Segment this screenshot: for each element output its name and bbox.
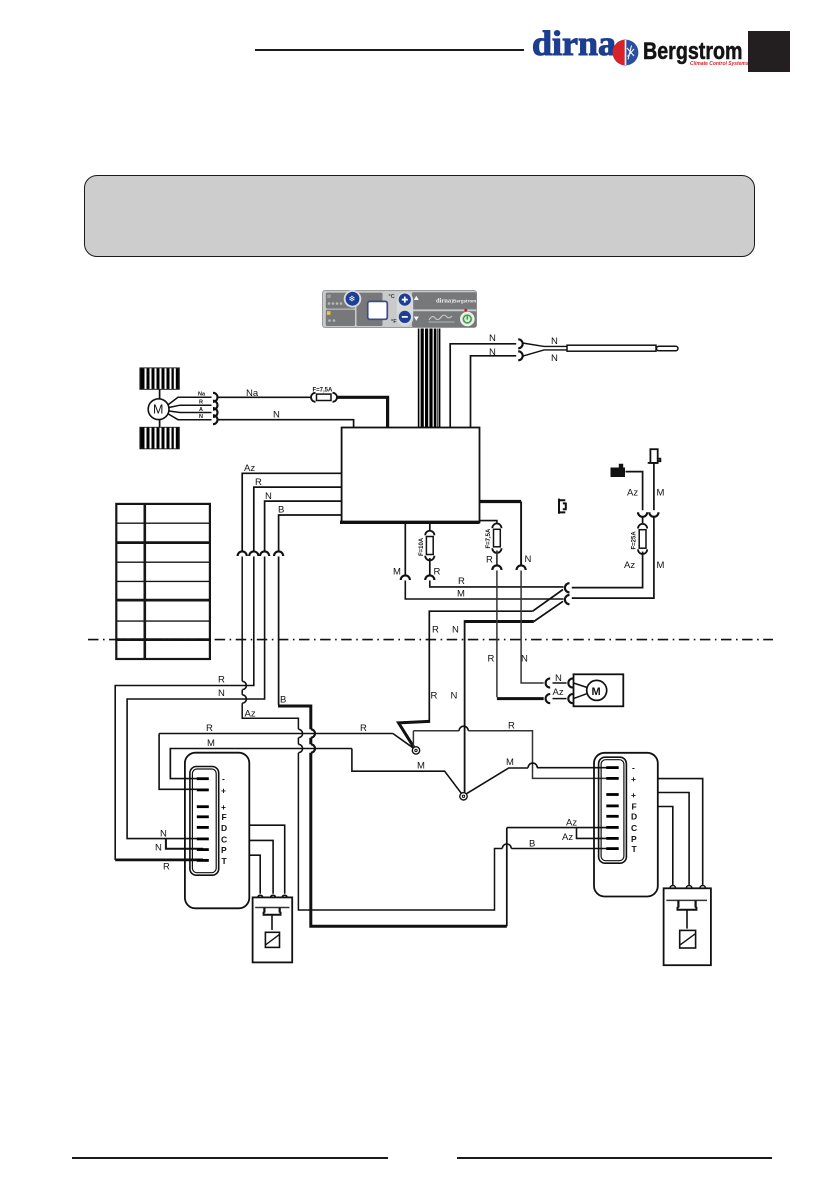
svg-text:N: N bbox=[218, 688, 225, 699]
control panel unit bbox=[322, 290, 477, 328]
connector on wire M bbox=[401, 575, 410, 580]
connector N at clutch motor bbox=[546, 678, 551, 687]
connector pair R-Az bbox=[565, 583, 570, 592]
svg-text:B: B bbox=[280, 695, 286, 706]
svg-text:+: + bbox=[221, 802, 226, 812]
connector on wire R right bbox=[492, 565, 501, 570]
wire from control unit corner to fuse F=7,5A bbox=[480, 521, 497, 524]
arrow down bbox=[414, 317, 419, 321]
connector N at motor box edge bbox=[568, 678, 573, 687]
wire M step down to clutch node bbox=[352, 749, 462, 795]
right module pin labels bbox=[631, 763, 638, 855]
legend table bbox=[116, 504, 210, 659]
wire M down and right bbox=[405, 581, 563, 600]
svg-text:Az: Az bbox=[245, 709, 256, 720]
svg-text:R: R bbox=[218, 675, 225, 686]
wire N branch into terminal P of left module bbox=[166, 839, 203, 849]
wire R below fuse bbox=[429, 558, 431, 575]
tile bottom-left bbox=[326, 310, 355, 326]
connector on lead R bbox=[213, 401, 218, 410]
motor lead Na bbox=[168, 397, 211, 404]
control unit box bbox=[342, 428, 480, 523]
wire M from clutch node to right module - bbox=[467, 768, 613, 794]
clutch motor M circle bbox=[587, 680, 607, 700]
wire B continues down bbox=[278, 557, 280, 705]
logo Bergstrom bbox=[643, 41, 746, 61]
wire N motor to control unit bbox=[217, 420, 354, 428]
wire R down to compressor clutch feed bbox=[496, 571, 498, 698]
hop of Az over N horizontal bbox=[242, 695, 246, 703]
left module wires to relay bbox=[249, 825, 284, 894]
junction node R (double circle) bbox=[412, 747, 419, 754]
wire Az continues down bbox=[242, 557, 502, 911]
left module pin labels bbox=[221, 774, 228, 866]
svg-text:M: M bbox=[153, 403, 163, 417]
svg-text:Az: Az bbox=[627, 488, 638, 499]
tile bottom right bbox=[412, 311, 477, 327]
left connector module (rounded) bbox=[185, 753, 249, 909]
right module wires to relay bbox=[658, 779, 703, 885]
wire N sensor 1 from control unit bbox=[450, 344, 516, 428]
wire R bold zigzag into junction node bbox=[399, 721, 430, 747]
wire N into terminal C of left module bbox=[166, 838, 203, 840]
wire R from left module horizontal bbox=[159, 733, 393, 735]
evaporator fan top bbox=[140, 368, 179, 389]
clutch junction node (double circle) bbox=[460, 793, 467, 800]
svg-text:+: + bbox=[221, 785, 226, 795]
svg-text:N: N bbox=[525, 554, 532, 565]
hop of wire R over N riser bbox=[459, 726, 468, 731]
connector on lead Na bbox=[213, 393, 218, 402]
connector Az at motor box edge bbox=[568, 694, 573, 703]
wire N continues left bbox=[127, 557, 265, 839]
wire Az into terminal C of right module bbox=[507, 827, 612, 829]
connector on wire N bbox=[260, 551, 269, 556]
connector on wire Az bbox=[238, 551, 247, 556]
svg-text:M: M bbox=[657, 488, 665, 499]
left module inner socket (double outline) bbox=[190, 767, 219, 876]
grey rounded panel box bbox=[84, 175, 755, 257]
wire R node stub up to crossover run bbox=[412, 731, 414, 748]
right connector module (rounded) bbox=[594, 753, 658, 897]
right module terminal pins bbox=[606, 766, 618, 850]
svg-text:M: M bbox=[417, 761, 425, 772]
svg-text:M: M bbox=[657, 560, 665, 571]
wire Az below F=25A down and left to connector bbox=[572, 552, 643, 588]
power button bbox=[460, 312, 475, 327]
svg-text:-: - bbox=[222, 774, 225, 784]
logo dirna bbox=[532, 29, 614, 60]
signature scribble bbox=[429, 315, 452, 320]
fuse F=25A bbox=[632, 524, 648, 554]
hop of wire B-T over Az riser bbox=[502, 844, 511, 849]
relay terminal bumps left bbox=[258, 895, 288, 897]
connector on Az (key) bbox=[638, 512, 647, 517]
svg-text:F: F bbox=[222, 812, 227, 822]
svg-text:Az: Az bbox=[553, 687, 564, 698]
wire N sensor 2 from control unit bbox=[471, 356, 517, 428]
svg-text:N: N bbox=[551, 353, 558, 364]
black corner square bbox=[748, 31, 790, 72]
leads inside motor box bbox=[574, 683, 588, 699]
svg-text:R: R bbox=[360, 723, 367, 734]
svg-text:Az: Az bbox=[566, 818, 577, 829]
wire R from left module to junction bbox=[393, 734, 413, 748]
diagonal from connector to lower R run bbox=[533, 590, 563, 612]
wire Az to fuse F=25A bbox=[642, 517, 644, 524]
thermostat bracket icon bbox=[559, 499, 567, 514]
svg-text:Az: Az bbox=[624, 560, 635, 571]
svg-text:F=7,5A: F=7,5A bbox=[486, 528, 492, 549]
shaft motor to fan bottom bbox=[159, 420, 161, 428]
svg-text:N: N bbox=[521, 654, 528, 665]
display window bbox=[368, 301, 388, 319]
wire M from control unit bottom bbox=[404, 522, 406, 574]
svg-text:R: R bbox=[199, 400, 203, 406]
arrow up bbox=[414, 296, 419, 300]
svg-text:M: M bbox=[393, 567, 401, 578]
wire N down to compressor motor run bbox=[521, 571, 544, 684]
svg-text:B: B bbox=[278, 505, 284, 516]
temperature probe tip bbox=[657, 346, 679, 350]
connector on sensor wire 2 bbox=[518, 351, 523, 360]
svg-text:+: + bbox=[631, 774, 636, 784]
pressure switch box right bbox=[664, 888, 711, 965]
wire N from control unit (left output) bbox=[265, 501, 342, 551]
connector Az at clutch motor bbox=[546, 694, 551, 703]
svg-text:C: C bbox=[221, 834, 227, 844]
svg-text:Na: Na bbox=[246, 388, 259, 399]
svg-text:Az: Az bbox=[562, 832, 573, 843]
right module inner socket (double outline) bbox=[599, 757, 627, 863]
svg-text:D: D bbox=[631, 812, 637, 822]
ribbon cable from control panel bbox=[419, 329, 440, 428]
riser N down to clutch node bbox=[464, 620, 466, 793]
header rule bbox=[255, 49, 524, 51]
svg-text:F: F bbox=[632, 801, 637, 811]
cab partition dash-dot line bbox=[88, 639, 773, 641]
connector on wire R bbox=[249, 551, 258, 556]
wire Az bold feed to clutch motor bbox=[497, 697, 544, 700]
svg-text:N: N bbox=[489, 347, 496, 358]
tile display bbox=[357, 293, 383, 326]
svg-text:B: B bbox=[529, 839, 535, 850]
temperature probe body bbox=[567, 345, 656, 351]
svg-text:F=10A: F=10A bbox=[419, 537, 425, 556]
wire B bold elbow down to bottom run bbox=[278, 705, 507, 927]
panel base bbox=[323, 291, 477, 328]
wire Na fuse to control unit (bold) bbox=[337, 397, 388, 427]
shaft fan top to motor bbox=[159, 389, 161, 399]
blower motor M bbox=[148, 399, 169, 420]
svg-text:+: + bbox=[631, 790, 636, 800]
wire B into terminal T of right module bbox=[511, 848, 612, 850]
svg-text:N: N bbox=[551, 336, 558, 347]
control unit bottom edge (bold) bbox=[340, 521, 480, 524]
svg-text:P: P bbox=[631, 834, 637, 844]
svg-text:T: T bbox=[222, 856, 228, 866]
switch coil left bbox=[265, 932, 279, 947]
wire M from left module down run bbox=[170, 749, 352, 779]
wire R from control unit (left output) bbox=[254, 487, 342, 551]
wire Az from control unit (left output) bbox=[242, 473, 341, 550]
connector on sensor wire 1 bbox=[518, 339, 523, 348]
wire R continues to left riser bbox=[115, 557, 254, 860]
footer rule right bbox=[457, 1157, 772, 1159]
svg-text:R: R bbox=[458, 576, 465, 587]
switch bar left bbox=[255, 907, 289, 909]
footer rule left bbox=[72, 1157, 388, 1159]
wire Az from key switch bbox=[626, 472, 643, 511]
fuse F=7,5A (right) bbox=[486, 524, 502, 553]
switch coil right bbox=[680, 930, 696, 948]
hop of Az riser over R run bbox=[298, 729, 302, 737]
plus minus pill bbox=[397, 292, 413, 326]
svg-text:A: A bbox=[199, 407, 203, 413]
svg-text:R: R bbox=[488, 654, 495, 665]
motor lead N bbox=[168, 414, 211, 420]
svg-text:Na: Na bbox=[198, 392, 206, 398]
wire M from battery bbox=[653, 463, 655, 510]
wire R below right fuse bbox=[496, 551, 498, 565]
pressure switch box left bbox=[253, 897, 293, 962]
economy indicator bbox=[327, 311, 331, 315]
svg-text:N: N bbox=[265, 491, 272, 502]
plus button bbox=[399, 294, 411, 306]
svg-text:M: M bbox=[207, 738, 215, 749]
hop of B riser over R run bbox=[311, 729, 315, 737]
connector on wire B bbox=[274, 551, 283, 556]
svg-text:N: N bbox=[452, 625, 459, 636]
indicator leds bbox=[328, 302, 331, 305]
hop of B riser over M run bbox=[311, 744, 315, 752]
wire Az branch into terminal P of right module bbox=[577, 828, 613, 839]
hop of Az riser over M run bbox=[298, 744, 302, 752]
svg-text:N: N bbox=[199, 414, 203, 420]
left module terminal pins bbox=[197, 777, 209, 862]
hop of wire M over R drop bbox=[528, 763, 537, 768]
svg-text:-: - bbox=[632, 763, 635, 773]
switch bar right bbox=[666, 899, 707, 901]
svg-text:R: R bbox=[255, 477, 262, 488]
svg-text:R: R bbox=[434, 567, 441, 578]
connector on wire R bbox=[425, 575, 434, 580]
wire B riser up to right module bbox=[506, 828, 508, 927]
svg-text:R: R bbox=[508, 721, 515, 732]
wire B from control unit (left output) bbox=[279, 515, 342, 551]
svg-text:F=25A: F=25A bbox=[632, 531, 638, 550]
wire R down and right bbox=[430, 581, 564, 587]
battery terminal icon bbox=[648, 449, 661, 463]
lower N run (bold) to riser bbox=[465, 620, 534, 623]
power led bbox=[464, 309, 467, 312]
tile top-left bbox=[326, 293, 355, 309]
svg-text:R: R bbox=[431, 691, 438, 702]
wire Na to fuse bbox=[217, 396, 311, 398]
svg-text:C: C bbox=[631, 823, 637, 833]
svg-text:R: R bbox=[206, 723, 213, 734]
lower R run to riser bbox=[429, 611, 532, 723]
wire Az to motor box bbox=[553, 698, 567, 700]
diagonal from connector to lower N run bbox=[534, 601, 563, 621]
logo tagline bbox=[690, 61, 762, 69]
wire N bold exit right of control unit bbox=[480, 500, 522, 503]
connector pair M-M bbox=[565, 595, 570, 604]
wire N down right side bbox=[520, 502, 522, 565]
switch stem left bbox=[271, 915, 273, 930]
tile logo right bbox=[412, 292, 477, 309]
wire R from control unit bottom to fuse bbox=[429, 522, 431, 531]
svg-text:R: R bbox=[486, 555, 493, 566]
wire R riser into + of left module bbox=[159, 734, 203, 790]
fuse F=10A bbox=[419, 531, 434, 561]
svg-text:N: N bbox=[555, 673, 562, 684]
svg-text:N: N bbox=[155, 843, 162, 854]
wire R crossover run to right module bbox=[413, 731, 612, 779]
wire N to motor box bbox=[553, 682, 567, 684]
sensor cable converging leads bbox=[523, 343, 568, 356]
svg-text:N: N bbox=[489, 333, 496, 344]
svg-text:M: M bbox=[457, 589, 465, 600]
connector on lead A bbox=[213, 408, 218, 417]
wire R into terminal T of left module (bold) bbox=[115, 859, 203, 862]
svg-text:M: M bbox=[506, 757, 514, 768]
svg-text:R: R bbox=[432, 625, 439, 636]
ignition key switch icon bbox=[611, 464, 626, 477]
motor lead R bbox=[169, 405, 212, 407]
switch stem right bbox=[686, 910, 688, 929]
svg-text:D: D bbox=[221, 823, 227, 833]
svg-text:N: N bbox=[451, 691, 458, 702]
motor lead A bbox=[169, 411, 212, 413]
connector on M (battery) bbox=[649, 512, 658, 517]
svg-text:M: M bbox=[592, 686, 601, 698]
svg-text:R: R bbox=[163, 862, 170, 873]
svg-text:P: P bbox=[221, 845, 227, 855]
wire M riser into - of left module bbox=[169, 749, 171, 779]
hop of Az over R horizontal bbox=[242, 681, 246, 689]
svg-text:Az: Az bbox=[244, 463, 255, 474]
svg-text:N: N bbox=[273, 409, 280, 420]
minus button bbox=[399, 311, 411, 323]
svg-text:F=7,5A: F=7,5A bbox=[313, 388, 334, 394]
connector on wire N bbox=[517, 565, 526, 570]
evaporator fan bottom bbox=[140, 428, 179, 449]
wire M down and left to connector bbox=[572, 517, 654, 598]
compressor clutch motor box bbox=[574, 674, 624, 706]
logo circle emblem bbox=[612, 39, 639, 66]
svg-text:N: N bbox=[160, 829, 167, 840]
fuse F=7,5A (blower) bbox=[311, 388, 337, 402]
svg-text:T: T bbox=[632, 844, 638, 854]
snowflake button bbox=[344, 290, 362, 308]
relay terminal bumps right bbox=[670, 886, 706, 889]
connector on lead N bbox=[213, 415, 218, 424]
